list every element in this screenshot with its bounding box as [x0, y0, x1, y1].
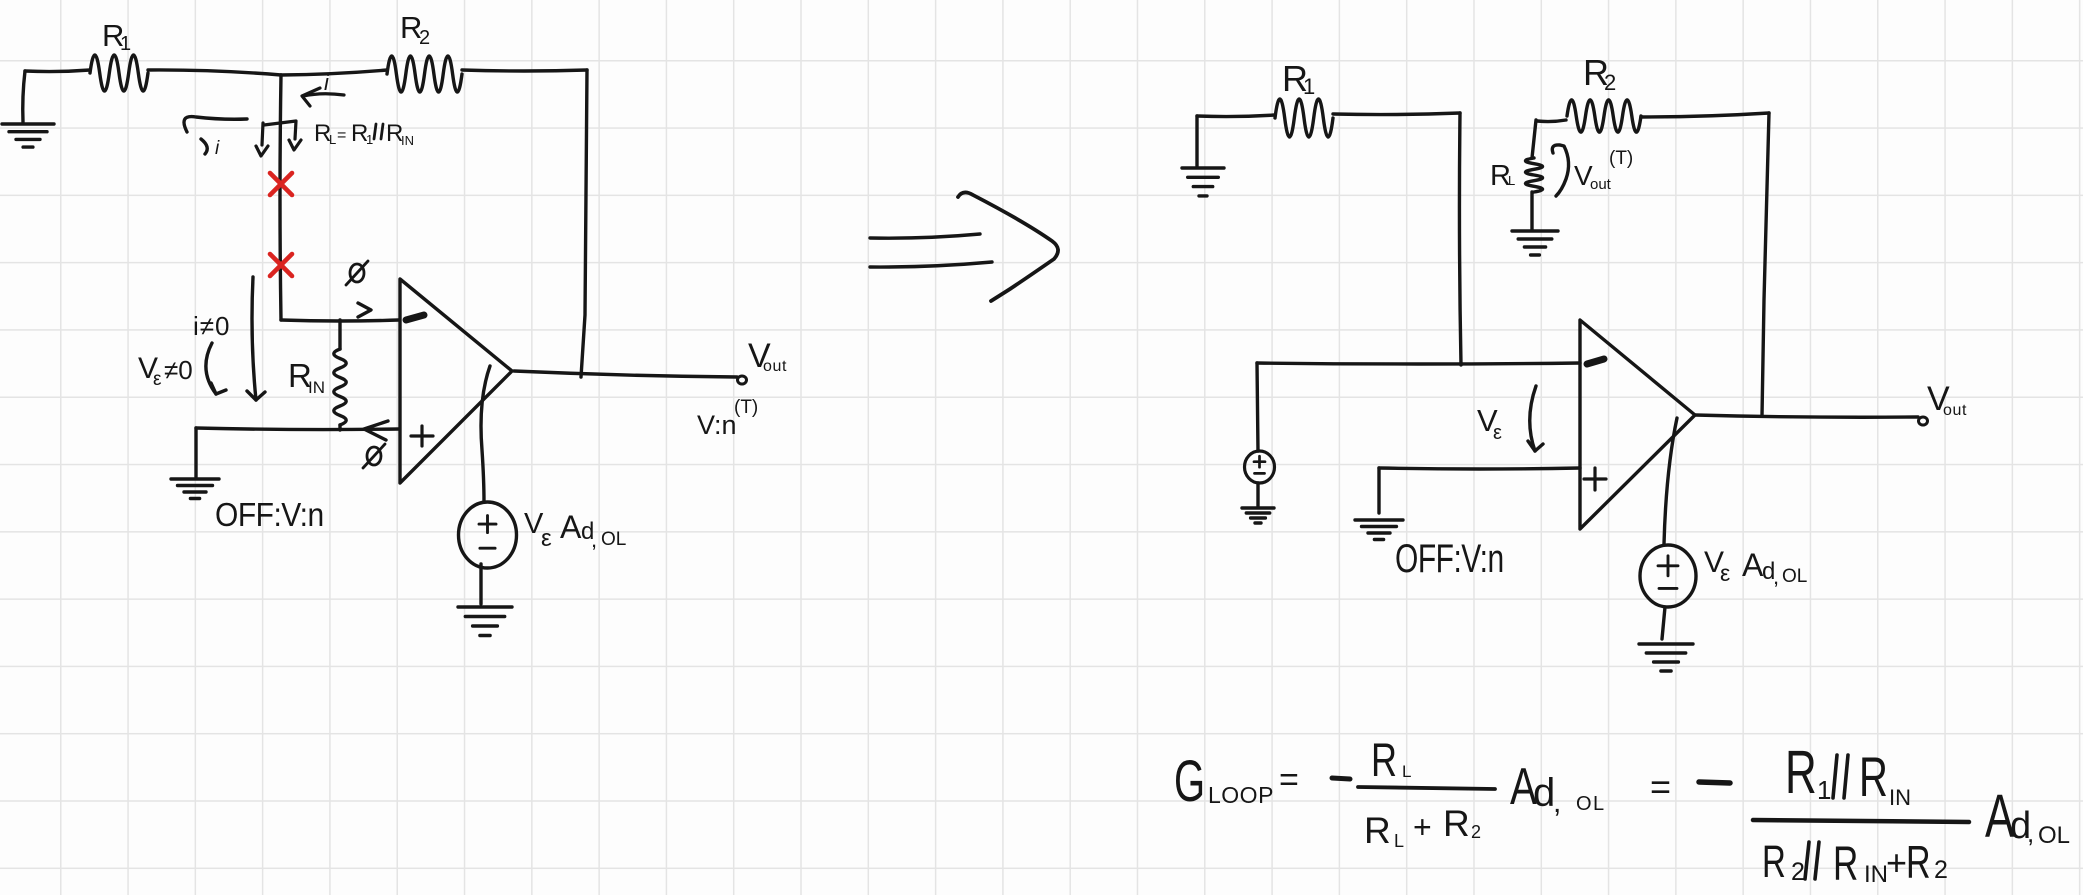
svg-text:2: 2 — [1934, 856, 1948, 884]
svg-text:,: , — [1773, 564, 1779, 589]
svg-text:1: 1 — [120, 33, 131, 55]
svg-text:G: G — [1174, 749, 1205, 814]
svg-text:i≠0: i≠0 — [193, 311, 231, 341]
svg-text:V:n: V:n — [697, 410, 737, 440]
svg-text:OFF:V:n: OFF:V:n — [1395, 537, 1504, 581]
svg-text:R: R — [1762, 837, 1786, 887]
svg-text:=: = — [1279, 761, 1299, 799]
svg-text:,: , — [591, 527, 597, 552]
svg-text:≠0: ≠0 — [164, 355, 193, 385]
svg-text:R: R — [1859, 747, 1888, 809]
svg-text:ε: ε — [1493, 422, 1502, 444]
svg-text:A: A — [560, 509, 582, 545]
svg-text:OL: OL — [1576, 793, 1606, 815]
svg-text:R: R — [1371, 733, 1397, 786]
svg-text:ε: ε — [1720, 560, 1730, 586]
svg-text:=: = — [337, 127, 346, 144]
svg-text:ε: ε — [153, 369, 162, 390]
svg-text:R: R — [1785, 739, 1817, 807]
svg-text:L: L — [329, 132, 336, 147]
svg-text:L: L — [1508, 173, 1515, 188]
svg-text:+: + — [1413, 809, 1432, 845]
svg-text:2: 2 — [419, 27, 430, 49]
svg-text:R: R — [1443, 803, 1470, 844]
svg-text:out: out — [1590, 176, 1612, 193]
svg-text:1: 1 — [366, 132, 373, 147]
svg-text:,: , — [2027, 818, 2034, 848]
svg-text:1: 1 — [1303, 74, 1315, 99]
svg-text:OL: OL — [2038, 822, 2070, 849]
svg-text:d: d — [1533, 771, 1555, 815]
svg-text:L: L — [1402, 762, 1411, 781]
svg-text:R: R — [1833, 837, 1858, 891]
svg-text:R: R — [1364, 810, 1391, 851]
svg-text:OFF:V:n: OFF:V:n — [215, 495, 324, 533]
svg-text:R: R — [1906, 836, 1931, 889]
svg-text:ε: ε — [541, 525, 552, 552]
svg-text:+: + — [1886, 842, 1907, 883]
svg-text:,: , — [1553, 786, 1561, 819]
svg-text:OL: OL — [1782, 566, 1807, 587]
svg-text:IN: IN — [401, 133, 414, 148]
svg-text:out: out — [1943, 402, 1967, 419]
svg-text:L: L — [1394, 831, 1404, 851]
svg-text:2: 2 — [1604, 70, 1616, 95]
svg-text:=: = — [1650, 766, 1671, 807]
svg-text:2: 2 — [1471, 822, 1481, 842]
svg-text:(T): (T) — [1609, 148, 1633, 169]
svg-text:2: 2 — [1791, 858, 1805, 886]
svg-text:1: 1 — [1817, 775, 1831, 805]
svg-text:out: out — [763, 358, 787, 375]
svg-text:A: A — [1742, 547, 1764, 583]
svg-text:OL: OL — [601, 529, 626, 550]
svg-text:i: i — [215, 138, 220, 159]
svg-text:(T): (T) — [734, 397, 758, 418]
svg-text:LOOP: LOOP — [1208, 782, 1274, 808]
svg-text:IN: IN — [1889, 785, 1911, 810]
svg-text:IN: IN — [1864, 861, 1888, 888]
svg-text:IN: IN — [308, 378, 325, 397]
